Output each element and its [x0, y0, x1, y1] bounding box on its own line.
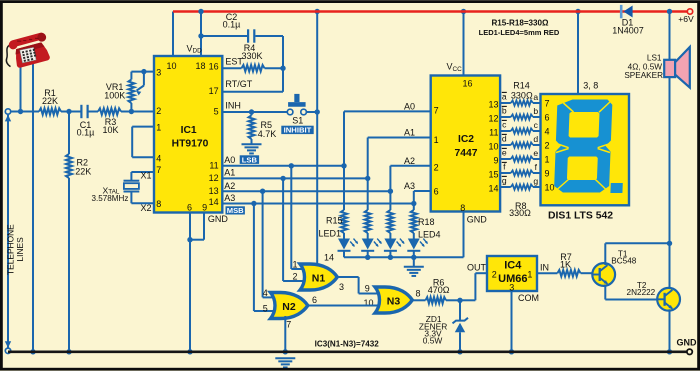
svg-text:1N4007: 1N4007 [612, 25, 644, 35]
label IC1 right pins [209, 62, 219, 208]
svg-text:IN: IN [540, 262, 549, 272]
speaker LS1 [664, 47, 690, 88]
svg-text:+6V: +6V [678, 14, 694, 24]
svg-text:INHIBIT: INHIBIT [284, 126, 312, 135]
diode D1 1N4007 [620, 5, 633, 18]
svg-text:7: 7 [545, 98, 550, 108]
label segment letter ebar / e [502, 147, 539, 157]
node junction A0 gate drop [289, 163, 294, 168]
wire A0 row [222, 165, 344, 167]
label D1 [612, 17, 644, 35]
node junction C2 branch [198, 33, 203, 38]
node GND terminal [687, 349, 692, 354]
or-gate N3 [375, 287, 412, 313]
wire segment rows a-g [500, 103, 540, 187]
svg-text:470Ω: 470Ω [428, 285, 450, 295]
svg-text:N1: N1 [312, 272, 326, 284]
svg-text:MSB: MSB [227, 206, 244, 215]
7-segment digit 8 with decimal point [554, 100, 626, 194]
label IC1 top pins [166, 61, 205, 71]
svg-text:b: b [533, 106, 538, 116]
wire IC1 pin18 vertical [200, 12, 202, 57]
svg-text:0.1µ: 0.1µ [77, 128, 95, 138]
svg-text:R14: R14 [513, 81, 530, 91]
svg-text:g: g [533, 176, 538, 186]
label N2 pins [263, 288, 317, 330]
node junction R4 right [280, 66, 285, 71]
svg-text:2: 2 [434, 162, 439, 172]
label A0 A1 A2 A3 at IC1 [224, 155, 235, 203]
svg-text:7: 7 [434, 106, 439, 116]
ic IC2 7447 box [431, 76, 500, 212]
svg-text:22K: 22K [75, 166, 91, 176]
svg-text:12: 12 [488, 113, 498, 123]
resistor R3 [98, 108, 121, 114]
potentiometer VR1 [128, 72, 144, 112]
svg-text:LED1-LED4=5mm RED: LED1-LED4=5mm RED [479, 28, 560, 37]
svg-text:R15: R15 [326, 215, 343, 225]
label COM [518, 293, 539, 303]
display DIS1 box [541, 94, 630, 205]
node junction LED2 bus [365, 255, 370, 260]
svg-text:8: 8 [460, 203, 465, 213]
svg-text:A2: A2 [404, 156, 415, 166]
svg-text:A3: A3 [224, 193, 235, 203]
resistor R5 [249, 112, 255, 144]
label IC1 bottom pins [187, 203, 207, 213]
label LS1 [624, 54, 663, 80]
label IC2 pin8 [460, 203, 465, 213]
resistor segment R10 [511, 156, 533, 161]
wire EST pin16 [222, 67, 241, 69]
LED2 [361, 239, 383, 258]
svg-text:OUT: OUT [467, 262, 487, 272]
svg-text:4: 4 [545, 126, 550, 136]
svg-text:3: 3 [156, 68, 161, 78]
or-gate N1 [300, 264, 337, 290]
node telephone line terminal top (open circle) [5, 109, 10, 114]
svg-text:2: 2 [156, 106, 161, 116]
svg-text:15: 15 [488, 169, 498, 179]
label GND IC1 [208, 214, 229, 224]
wire speaker branch [669, 12, 671, 291]
wire IC1 pin9 gnd [190, 213, 204, 240]
wire A0 to IC2 pin7 [344, 111, 431, 165]
svg-text:d: d [533, 134, 538, 144]
svg-text:LINES: LINES [15, 237, 25, 262]
label R6 [428, 277, 450, 295]
svg-text:13: 13 [488, 99, 498, 109]
node junction pin18 rail [198, 9, 203, 14]
label R7 [560, 252, 572, 270]
wire T2 emitter to bus [669, 309, 671, 352]
node +6V terminal [687, 9, 692, 14]
capacitor C2 [248, 29, 254, 42]
svg-text:1: 1 [292, 259, 297, 269]
svg-text:IC1: IC1 [181, 125, 197, 136]
svg-text:0.5W: 0.5W [423, 335, 443, 345]
label R1 [42, 88, 58, 106]
svg-text:A1: A1 [404, 128, 415, 138]
resistor segment R13 [511, 114, 533, 119]
resistor segment R14 [511, 100, 533, 105]
node junction IC1 gnd on bus [187, 349, 192, 354]
label N2 [282, 301, 296, 313]
svg-text:N2: N2 [282, 301, 296, 313]
svg-text:1: 1 [545, 154, 550, 164]
svg-text:5: 5 [263, 304, 268, 314]
wire R7 to T1 base [581, 272, 595, 274]
node junction phone left leg [18, 109, 23, 114]
svg-text:3.578MHz: 3.578MHz [92, 194, 129, 203]
node junction +6V rail at x317 [315, 9, 320, 14]
svg-text:e: e [533, 148, 538, 158]
wire phone right leg to ground bus [32, 62, 34, 352]
wire junction to IC4 pin2 [460, 273, 487, 300]
wire ground bus [8, 350, 690, 353]
resistor R4 [242, 65, 265, 71]
label C1 [77, 120, 95, 138]
label N3 pins [363, 283, 420, 308]
node telephone line terminal bottom (open circle) [5, 348, 10, 353]
resistor R7 [557, 270, 580, 276]
LED1 [338, 239, 360, 258]
svg-text:16: 16 [209, 62, 219, 72]
wire RT/GT pin17 [222, 91, 283, 93]
label EST [225, 56, 243, 66]
svg-text:LED1: LED1 [318, 229, 341, 239]
label XTAL [92, 185, 129, 203]
wire T1 collector [605, 243, 669, 265]
label R15-R18 note [491, 19, 549, 28]
wire pin3 row [131, 71, 154, 73]
label R18 [418, 217, 435, 227]
ic U IC4 UM66 box [487, 256, 537, 291]
label RT/GT [225, 79, 252, 89]
svg-text:330K: 330K [241, 51, 262, 61]
svg-text:COM: COM [518, 293, 539, 303]
ground below R5 [242, 144, 262, 153]
node junction COM bus [509, 349, 514, 354]
node junction LED4 bus [411, 255, 416, 260]
ic IC1 HT9170 box [154, 56, 222, 213]
svg-text:IC3(N1-N3)=7432: IC3(N1-N3)=7432 [315, 340, 380, 349]
node junction A0/R15 [341, 163, 346, 168]
svg-text:EST: EST [225, 56, 243, 66]
label GND right [677, 338, 698, 348]
or-gate N2 [271, 293, 308, 319]
node junction LED3 bus [388, 255, 393, 260]
wire N3 out [412, 299, 425, 301]
svg-text:BC548: BC548 [611, 257, 636, 266]
wire S1 right to +6V vertical [306, 111, 317, 113]
label DIS1 pins [545, 98, 555, 192]
svg-text:R18: R18 [418, 217, 435, 227]
svg-text:9: 9 [202, 203, 207, 213]
wire +6V drop to N1 pin14 [316, 12, 318, 265]
svg-text:DIS1 LTS 542: DIS1 LTS 542 [548, 211, 613, 222]
label segment letter gbar / g [502, 175, 539, 185]
wire A3 to N2 input2 [254, 204, 276, 312]
wire R2 bottom to bus [68, 178, 70, 352]
svg-text:1K: 1K [560, 260, 571, 270]
svg-text:11: 11 [209, 161, 218, 171]
svg-text:IC2: IC2 [458, 134, 474, 145]
label N1 [312, 272, 326, 284]
label segment letter fbar / f [502, 161, 538, 171]
svg-text:INH: INH [225, 101, 241, 111]
svg-text:HT9170: HT9170 [172, 139, 209, 150]
wire T1 emitter to T2 base [605, 285, 658, 300]
resistor R2 [66, 154, 72, 178]
svg-text:TELEPHONE: TELEPHONE [6, 224, 16, 275]
svg-text:8: 8 [416, 288, 421, 298]
label C2 [223, 12, 241, 30]
svg-text:LS1: LS1 [647, 54, 662, 63]
label IC4 [498, 260, 527, 285]
label R15 [326, 215, 343, 225]
wire VR1 top to pin3 row [130, 72, 132, 80]
svg-text:1: 1 [434, 135, 439, 145]
svg-text:9: 9 [493, 155, 498, 165]
label IC1 [172, 125, 209, 150]
svg-text:10: 10 [166, 61, 176, 71]
svg-text:10: 10 [488, 141, 498, 151]
wire A0 to N1 input1 [291, 166, 306, 269]
label R3 [102, 117, 118, 135]
switch S1 [287, 94, 306, 115]
node junction Vcc rail [461, 9, 466, 14]
node junction R2 on bus [66, 349, 71, 354]
wire IC1 pin10 to +6V rail [172, 12, 174, 57]
wire N1 output to N3 [337, 277, 378, 294]
svg-text:A0: A0 [404, 101, 415, 111]
label N3 [387, 295, 401, 307]
label R5 [258, 120, 277, 139]
wire telephone row [11, 111, 39, 113]
LED4 [407, 239, 429, 258]
label segment letter abar / a [502, 91, 539, 101]
node junction A2/R17 [388, 189, 393, 194]
svg-text:X1: X1 [140, 170, 151, 180]
label segment letter dbar / d [502, 133, 539, 143]
node junction VR1 bottom [129, 109, 134, 114]
wire telephone line vertical [5, 115, 11, 349]
svg-text:A0: A0 [224, 155, 235, 165]
svg-text:2: 2 [545, 140, 550, 150]
svg-text:3, 8: 3, 8 [583, 81, 598, 91]
label INH [225, 101, 241, 111]
label R4 [241, 43, 262, 61]
node junction A2 gate drop [260, 189, 265, 194]
resistor segment R9 [511, 170, 533, 175]
svg-text:14: 14 [324, 253, 334, 263]
node junction pin6/pin9 [187, 237, 192, 242]
svg-text:16: 16 [462, 78, 472, 88]
wire IC2 Vcc [463, 12, 465, 76]
zener ZD1 [453, 300, 469, 352]
svg-text:a: a [533, 92, 538, 102]
label VCC [447, 62, 463, 73]
wire A1 to N1 input2 [283, 178, 306, 281]
node junction N2 gnd bus [283, 349, 288, 354]
svg-text:X2: X2 [140, 203, 151, 213]
wire R4 to vertical [265, 67, 284, 69]
label IC2 pin16 [462, 78, 472, 88]
svg-text:4: 4 [156, 153, 161, 163]
ground below LEDs [404, 257, 424, 276]
label MSB badge [226, 206, 245, 215]
wire display pins 3,8 feed [577, 12, 579, 95]
crystal XTAL [124, 181, 140, 192]
node junction T2 bus [667, 349, 672, 354]
label LED4 [418, 229, 441, 239]
svg-text:SPEAKER: SPEAKER [624, 71, 663, 80]
wire +6V rail (red) [173, 10, 690, 13]
label T1 [611, 249, 636, 265]
svg-text:R15-R18=330Ω: R15-R18=330Ω [491, 19, 549, 28]
wire A2 to N2 input1 [263, 191, 276, 297]
label R14 [511, 81, 533, 101]
label IC2 [455, 134, 478, 159]
wire A2 row [222, 190, 390, 192]
label T2 [627, 281, 656, 297]
wire N2 pin7 to gnd [284, 316, 286, 352]
svg-text:c: c [534, 120, 539, 130]
svg-text:5: 5 [214, 107, 219, 117]
svg-text:GND: GND [208, 214, 229, 224]
wire A3 to IC2 pin6 [414, 191, 431, 204]
svg-text:13: 13 [209, 186, 219, 196]
label LED1 [318, 229, 341, 239]
label 3, 8 [583, 81, 598, 91]
svg-text:GND: GND [677, 338, 698, 348]
label TELEPHONE LINES [6, 224, 26, 275]
node junction VR1 wiper [141, 69, 146, 74]
label IN [540, 262, 549, 272]
wire A2 to IC2 pin2 [390, 166, 430, 192]
svg-text:100K: 100K [104, 90, 125, 100]
label LED1-LED4 note [479, 28, 560, 37]
node junction ZD1 bus [457, 349, 462, 354]
svg-text:10: 10 [545, 182, 555, 192]
label IC2 right pins [488, 99, 498, 193]
ground below bus N2 [275, 358, 295, 367]
label DIS1 LTS 542 [548, 211, 613, 222]
svg-text:330Ω: 330Ω [509, 208, 531, 218]
label X1 X2 [140, 170, 151, 212]
svg-text:LSB: LSB [242, 155, 258, 164]
svg-text:S1: S1 [292, 115, 303, 125]
node junction display rail [575, 9, 580, 14]
svg-text:6: 6 [312, 295, 317, 305]
node junction speaker rail [667, 9, 672, 14]
resistor segment R8 [511, 184, 533, 189]
svg-text:2: 2 [292, 272, 297, 282]
svg-text:11: 11 [489, 127, 498, 137]
svg-text:8: 8 [156, 199, 161, 209]
wire C1 to R3 [88, 111, 98, 113]
svg-text:6: 6 [434, 187, 439, 197]
svg-text:330Ω: 330Ω [511, 91, 533, 101]
wire A3 row [222, 203, 413, 205]
wire INH pin5 to S1 [222, 111, 287, 113]
node junction A1 gate drop [280, 176, 285, 181]
svg-text:18: 18 [195, 61, 205, 71]
node junction A1/R16 [365, 176, 370, 181]
wire A1 to IC2 pin1 [368, 138, 431, 179]
svg-text:3: 3 [339, 282, 344, 292]
wire IC2 pin8 gnd [463, 212, 465, 258]
transistor T1 BC548 [592, 263, 615, 286]
svg-text:4: 4 [263, 288, 268, 298]
node junction R2 top [66, 109, 71, 114]
telephone icon [2, 32, 53, 71]
svg-text:2: 2 [492, 269, 497, 279]
wire C2 to EST/RTGT vertical [255, 36, 283, 92]
svg-text:12: 12 [209, 173, 219, 183]
svg-text:6: 6 [187, 203, 192, 213]
resistor R17 [387, 191, 393, 238]
label GND IC2 [467, 214, 488, 224]
node junction A3 gate drop [251, 201, 256, 206]
resistor segment R12 [511, 128, 533, 133]
wire phone left leg [20, 62, 22, 112]
label R8 [509, 201, 531, 218]
node junction phone right leg on bus [30, 349, 35, 354]
label +6V [678, 14, 694, 24]
node junction S1 vertical [315, 109, 320, 114]
label A0-A3 at IC2 [404, 101, 415, 191]
svg-text:9: 9 [545, 168, 550, 178]
label INHIBIT badge [281, 126, 313, 135]
wire pin1-pin4 loop [132, 127, 154, 158]
svg-text:0.1µ: 0.1µ [223, 20, 241, 30]
svg-text:6: 6 [545, 112, 550, 122]
wire C2 branch [201, 35, 247, 37]
svg-text:A1: A1 [224, 168, 235, 178]
label segment letter bbar / b [502, 105, 539, 115]
LED3 [384, 239, 406, 258]
label R2 [75, 158, 91, 177]
svg-text:14: 14 [488, 183, 498, 193]
svg-text:A2: A2 [224, 181, 235, 191]
label IC3 note [315, 340, 380, 349]
svg-text:10K: 10K [102, 125, 118, 135]
label N1 pins [292, 253, 344, 292]
svg-text:7: 7 [156, 165, 161, 175]
svg-text:RT/GT: RT/GT [225, 79, 252, 89]
svg-text:GND: GND [467, 214, 488, 224]
capacitor C1 [81, 105, 87, 118]
node junction R5 top [249, 109, 254, 114]
label LSB badge [240, 155, 259, 164]
resistor R18 [411, 204, 417, 239]
wire R1 to C1 [61, 111, 81, 113]
wire IC4 pin3 COM [511, 291, 513, 352]
svg-text:LED4: LED4 [418, 229, 441, 239]
transistor T2 2N2222 [657, 288, 680, 311]
label segment letter cbar / c [502, 119, 539, 129]
svg-text:7447: 7447 [455, 148, 478, 159]
label VR1 [104, 82, 125, 101]
node junction T1 collector [667, 241, 672, 246]
resistor segment R11 [511, 142, 533, 147]
wire X1 pin7 [131, 172, 154, 181]
wire IC4 pin1 to R7 [537, 272, 557, 274]
label ZD1 [419, 314, 447, 345]
svg-text:7: 7 [286, 319, 291, 329]
